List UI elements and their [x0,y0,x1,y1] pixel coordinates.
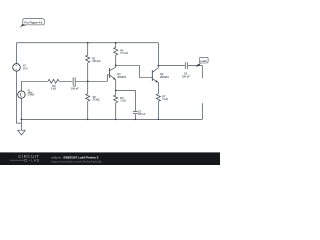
svg-text:7.5 kΩ: 7.5 kΩ [120,52,128,55]
svg-text:100 nF: 100 nF [71,88,79,91]
svg-text:out: out [200,59,206,63]
svg-text:For Figure 4.9: For Figure 4.9 [25,20,43,24]
svg-text:1 kΩ: 1 kΩ [51,88,56,91]
svg-text:100 nF: 100 nF [182,75,190,78]
svg-text:2N3904: 2N3904 [160,76,169,79]
svg-text:10 V: 10 V [23,67,28,70]
svg-text:1 kHz: 1 kHz [28,94,35,97]
svg-text:100 uF: 100 uF [138,113,146,116]
svg-text:20 kΩ: 20 kΩ [93,99,100,102]
svg-text:2N3904: 2N3904 [117,76,126,79]
svg-text:1 kΩ: 1 kΩ [120,99,125,102]
svg-text:LAB: LAB [31,159,40,163]
svg-text:100 kΩ: 100 kΩ [92,60,100,63]
svg-text:http://circuitlab.com/c/5e5a7a: http://circuitlab.com/c/5e5a7arfyt5j [51,159,102,163]
svg-text:1 kΩ: 1 kΩ [162,98,167,101]
